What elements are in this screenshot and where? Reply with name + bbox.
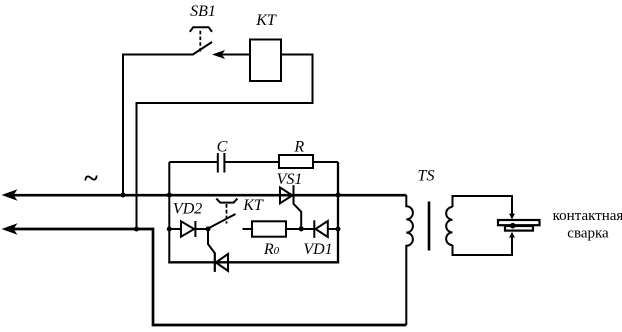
svg-text:TS: TS xyxy=(418,167,435,184)
svg-text:~: ~ xyxy=(84,164,98,193)
svg-text:VD2: VD2 xyxy=(173,201,202,218)
svg-text:VS1: VS1 xyxy=(277,171,303,188)
svg-text:контактная: контактная xyxy=(553,208,622,224)
svg-text:KT: KT xyxy=(242,197,264,214)
svg-text:R: R xyxy=(293,138,304,155)
svg-text:сварка: сварка xyxy=(567,226,609,242)
svg-text:SB1: SB1 xyxy=(190,3,216,20)
svg-text:VD1: VD1 xyxy=(303,241,332,258)
svg-text:R0: R0 xyxy=(263,241,280,258)
svg-text:KT: KT xyxy=(255,12,277,29)
svg-text:C: C xyxy=(217,138,228,155)
